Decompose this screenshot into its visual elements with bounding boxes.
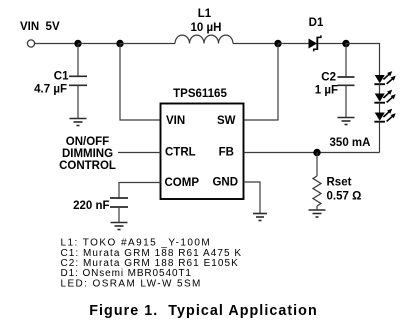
wire SW pin to node C bbox=[244, 44, 279, 121]
svg-text:350 mA: 350 mA bbox=[330, 137, 371, 149]
wire node B down to VIN pin bbox=[120, 44, 161, 121]
LED D4 bbox=[374, 109, 395, 122]
svg-text:VIN: VIN bbox=[166, 115, 185, 127]
node E junction on FB net bbox=[313, 149, 320, 156]
ground for GND pin bbox=[253, 214, 267, 221]
wire FB pin to LED column bbox=[244, 152, 380, 154]
value label component list bbox=[61, 238, 243, 290]
wire node C to diode D1 bbox=[278, 43, 309, 45]
svg-text:4.7 µF: 4.7 µF bbox=[34, 84, 67, 96]
wire node D to LED column corner bbox=[346, 44, 380, 76]
svg-text:GND: GND bbox=[212, 177, 238, 189]
node D junction bbox=[342, 40, 349, 47]
label ON/OFF DIMMING CONTROL bbox=[59, 136, 116, 172]
wire node A down to capacitor C1 bbox=[77, 44, 79, 77]
ground for C2 bbox=[338, 118, 355, 125]
svg-text:LED: OSRAM LW-W 5SM: LED: OSRAM LW-W 5SM bbox=[61, 278, 202, 289]
node C junction bbox=[274, 40, 281, 47]
svg-text:Figure 1. Typical Application: Figure 1. Typical Application bbox=[89, 303, 318, 319]
wire inductor to node C bbox=[233, 43, 278, 45]
wire LED D2 to LED D3 bbox=[379, 84, 381, 93]
svg-text:SW: SW bbox=[217, 115, 236, 127]
resistor Rset bbox=[313, 176, 321, 206]
wire terminal to node A bbox=[35, 43, 78, 45]
LED D3 bbox=[374, 90, 395, 103]
input terminal circle bbox=[27, 40, 34, 47]
svg-text:DIMMING: DIMMING bbox=[62, 148, 113, 160]
capacitor C2 bbox=[338, 77, 355, 85]
wire diode to node D bbox=[318, 43, 346, 45]
diode D1 (Schottky) bbox=[309, 35, 321, 51]
svg-text:10 µH: 10 µH bbox=[191, 22, 222, 34]
svg-text:1 µF: 1 µF bbox=[315, 85, 338, 97]
svg-text:0.57 Ω: 0.57 Ω bbox=[327, 191, 362, 203]
svg-text:ON/OFF: ON/OFF bbox=[66, 136, 109, 148]
svg-text:C2: C2 bbox=[321, 72, 336, 84]
wire node A to node B bbox=[78, 43, 120, 45]
wire COMP pin to capacitor C3 bbox=[119, 183, 161, 199]
svg-text:220 nF: 220 nF bbox=[73, 200, 109, 212]
ground for C1 bbox=[70, 119, 87, 126]
wire LED D3 to LED D4 bbox=[379, 103, 381, 113]
wire LED D4 down to FB net bbox=[379, 122, 381, 153]
node A junction bbox=[74, 40, 81, 47]
wire C3 to ground bbox=[118, 207, 120, 223]
wire C1 to ground bbox=[77, 85, 79, 118]
svg-text:C1: C1 bbox=[54, 71, 69, 83]
capacitor C3 220nF bbox=[110, 198, 128, 207]
svg-text:FB: FB bbox=[219, 147, 234, 159]
svg-text:CTRL: CTRL bbox=[165, 147, 196, 159]
node B junction bbox=[116, 40, 123, 47]
svg-text:CONTROL: CONTROL bbox=[59, 160, 116, 172]
ground for Rset bbox=[309, 210, 326, 217]
capacitor C1 bbox=[69, 76, 87, 85]
ground for C3 bbox=[111, 223, 128, 230]
wire C2 to ground bbox=[345, 85, 347, 117]
wire node B to inductor L1 bbox=[120, 43, 175, 45]
svg-text:COMP: COMP bbox=[165, 177, 200, 189]
wire node E to resistor Rset bbox=[316, 153, 318, 177]
op-amp U1 TPS61165 box bbox=[161, 104, 244, 200]
svg-text:VIN 5V: VIN 5V bbox=[20, 21, 60, 33]
wire node D down to capacitor C2 bbox=[345, 44, 347, 78]
svg-text:D1: D1 bbox=[309, 17, 324, 29]
wire control input to CTRL pin bbox=[118, 152, 161, 154]
svg-text:L1: L1 bbox=[198, 8, 212, 20]
wire Rset to ground bbox=[316, 206, 318, 210]
svg-text:Rset: Rset bbox=[327, 177, 352, 189]
svg-text:TPS61165: TPS61165 bbox=[173, 88, 227, 100]
LED D2 bbox=[374, 71, 395, 84]
wire GND pin to ground bbox=[244, 182, 261, 214]
inductor L1 bbox=[175, 35, 233, 43]
